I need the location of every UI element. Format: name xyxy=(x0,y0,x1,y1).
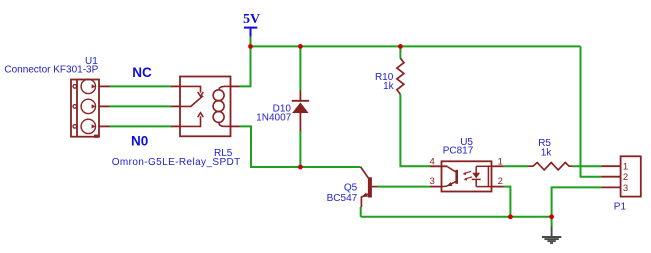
svg-text:5V: 5V xyxy=(243,12,260,27)
svg-text:BC547: BC547 xyxy=(327,193,358,204)
junction at D10 bottom xyxy=(298,165,303,170)
U5 light arrows xyxy=(464,171,472,179)
wire rail to D10 xyxy=(299,46,301,91)
connector U1 screw notches xyxy=(92,84,96,128)
P1 pin stubs xyxy=(602,166,621,187)
wire Q5 emitter down xyxy=(360,207,362,217)
wire U1 pin1 to relay NC xyxy=(110,85,172,87)
resistor R5 xyxy=(528,163,573,170)
svg-text:1N4007: 1N4007 xyxy=(256,113,291,124)
connector U1 pin1 mark xyxy=(94,135,98,138)
wire bottom ground bus xyxy=(361,216,552,218)
wire U1 pin3 to relay NO xyxy=(110,125,172,127)
junction at 5V stem xyxy=(248,44,253,49)
wire D10 to collector row xyxy=(299,131,301,168)
connector U1 terminal circles xyxy=(81,79,95,133)
U5 pin stubs xyxy=(430,166,504,186)
wire rail to R10 xyxy=(399,46,401,58)
svg-text:PC817: PC817 xyxy=(443,146,474,157)
wire ground stem xyxy=(551,217,553,227)
resistor R10 xyxy=(397,58,404,94)
connector P1 body xyxy=(621,156,641,196)
ground xyxy=(542,227,561,244)
svg-text:P1: P1 xyxy=(614,201,627,212)
wire R10 to U5 pin4 xyxy=(400,94,430,166)
U5 phototransistor xyxy=(442,167,457,187)
svg-text:3: 3 xyxy=(430,176,435,187)
relay RL5 contact arrows xyxy=(198,92,204,117)
junction at D10 top xyxy=(298,44,303,49)
svg-text:Connector KF301-3P: Connector KF301-3P xyxy=(4,65,98,76)
svg-text:1: 1 xyxy=(623,162,628,173)
svg-text:NC: NC xyxy=(132,65,152,80)
svg-text:4: 4 xyxy=(430,157,435,168)
U1 pin stubs xyxy=(99,86,110,126)
connector U1 small entry circles xyxy=(73,85,77,129)
wire U5 pin2 to ground net xyxy=(504,187,511,217)
connector U1 body xyxy=(71,80,99,137)
svg-text:2: 2 xyxy=(623,172,628,183)
junction at U5 pin2 / ground bus xyxy=(508,214,513,219)
power flag 5V xyxy=(244,28,257,37)
svg-text:1k: 1k xyxy=(541,148,553,159)
U5 LED xyxy=(472,166,492,186)
wire relay coil bottom to Q5 collector xyxy=(240,126,361,167)
relay RL5 body xyxy=(180,77,231,137)
relay RL5 switch contacts xyxy=(180,86,203,126)
relay RL5 coil xyxy=(213,86,230,126)
optocoupler U5 body xyxy=(442,161,492,191)
wire U1 pin2 to relay common xyxy=(110,105,172,107)
wire ground bus to P1 pin3 xyxy=(552,187,602,216)
diode D10 xyxy=(292,91,309,132)
svg-text:1k: 1k xyxy=(383,81,395,92)
junction at R10 top xyxy=(398,44,403,49)
svg-text:N0: N0 xyxy=(131,133,148,148)
relay RL5 pin stubs xyxy=(171,86,240,126)
wire 5V stem xyxy=(250,37,252,47)
wire Q5 base to U5 pin3 xyxy=(377,186,430,188)
wire rail to P1 pin2 xyxy=(581,46,602,176)
junction at ground xyxy=(549,214,554,219)
transistor Q5 xyxy=(361,167,378,207)
svg-text:2: 2 xyxy=(498,176,503,187)
wire rail to relay coil top xyxy=(240,46,251,86)
svg-text:Omron-G5LE-Relay_SPDT: Omron-G5LE-Relay_SPDT xyxy=(112,157,241,168)
wire top power rail xyxy=(251,45,581,47)
wire R5 to P1 pin1 xyxy=(573,165,602,167)
svg-text:1: 1 xyxy=(498,157,503,168)
wire U5 pin1 to R5 xyxy=(504,165,529,167)
svg-text:Q5: Q5 xyxy=(344,183,358,194)
svg-text:3: 3 xyxy=(623,183,628,194)
